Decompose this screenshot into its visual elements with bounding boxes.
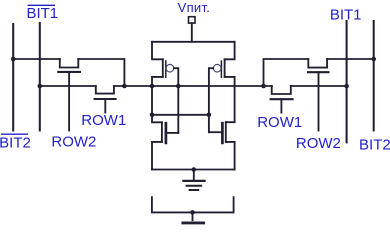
transistor M1 (left pass, gate ROW2) [60,59,79,68]
svg-text:ROW2: ROW2 [296,135,341,152]
node junction left column / cross wire [150,113,155,118]
wire BIT1-bar to M2 source [40,85,96,87]
wire up to M3 [264,59,309,86]
wire M4 to BIT1 [291,85,347,87]
wire node A to right pass pair [261,84,266,89]
svg-text:ROW1: ROW1 [257,114,302,131]
node BIT2 line (right vertical 2) [373,21,375,131]
ground (signal) [192,212,194,220]
node junction BIT2-bar/wire [11,57,16,62]
node BIT1-bar line (left vertical 2) [39,23,41,131]
wire M4 gate lead to ROW1 [280,99,282,112]
wire left column top [152,42,163,60]
node junction BIT2/wire [371,57,376,62]
node junction gate line on node wire [176,84,181,89]
wire P1 gate lead [174,68,178,133]
transistor M4 (right pass, gate ROW1) [272,86,291,94]
wire Vpit to rail [191,23,193,42]
wire M1 gate lead to ROW2 [68,72,70,131]
node junction BIT1-bar/wire [38,84,43,89]
node junction right gate line / cross wire [207,113,212,118]
wire M1 drain to node A [78,59,124,86]
wire M3 to BIT2 [327,58,374,60]
svg-text:ROW1: ROW1 [81,112,126,129]
node BIT1 line (right vertical 1) [346,21,348,142]
transistor N1 (NMOS left driver) [161,122,163,142]
wire N2 gate lead [209,131,223,133]
wire M3 gate lead to ROW2 [318,72,320,130]
node BIT2-bar line (left vertical 1) [12,24,14,131]
transistor P1 (PMOS left) [162,59,164,77]
wire M2 gate lead to ROW1 [104,99,106,113]
transistor N2 (NMOS right driver) [225,122,227,142]
svg-text:Vпит.: Vпит. [178,0,211,15]
svg-text:BIT2: BIT2 [359,137,390,154]
wire right column top [225,42,235,60]
svg-text:BIT1: BIT1 [26,5,58,22]
node junction at (124.4,86) [122,84,127,89]
wire bottom rail [152,169,235,171]
node junction P1 drain on node wire [150,84,155,89]
svg-text:ROW2: ROW2 [51,133,96,150]
svg-text:BIT1: BIT1 [330,7,362,24]
svg-text:BIT2: BIT2 [0,135,31,152]
wire node A horizontal (storage node wire) [114,85,272,87]
wire BIT2-bar to M1 source [13,58,60,60]
port Vpit square [189,17,196,23]
transistor P2 (PMOS right) [224,59,226,77]
wire Vdd rail [152,41,235,43]
node junction substrate [190,210,195,215]
wire cross-coupling (node B wire) [152,114,209,116]
ground [193,170,195,180]
transistor M2 (left pass, gate ROW1) [96,86,114,94]
wire P2 gate lead [209,68,213,132]
transistor M3 (right pass, gate ROW2) [308,59,327,68]
node junction ground [192,167,197,172]
node junction BIT1/wire [344,84,349,89]
wire substrate staple [152,197,234,212]
wire N1 gate lead [166,132,178,134]
